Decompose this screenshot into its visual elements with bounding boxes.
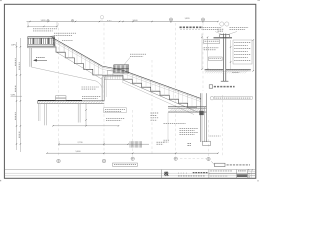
left dim numbers: [15, 58, 19, 138]
stamp box left: [113, 163, 138, 166]
railing posts: [33, 38, 35, 44]
annotation bar right: [210, 96, 214, 100]
soffit curve: [31, 67, 102, 93]
title block right cells: [248, 170, 256, 172]
svg-text:株: 株: [164, 171, 169, 178]
dim line mid: [53, 125, 119, 127]
mid landing vert left: [105, 77, 107, 97]
slab A hatch: [39, 101, 42, 104]
svg-text:3: 3: [252, 169, 253, 171]
top dim tick 10: [202, 21, 203, 22]
detail floor hatch: [205, 70, 209, 74]
detail note top right: [230, 27, 249, 29]
title block divider 1: [161, 170, 163, 179]
detail grid bubbles: [220, 22, 224, 26]
title block dark cell: [237, 174, 247, 177]
upper landing floor: [28, 45, 56, 47]
grid bubble 2 (circle): [100, 16, 103, 19]
top dim tick 1: [29, 21, 30, 22]
sheet label box: [215, 163, 226, 166]
svg-text:31: 31: [248, 174, 250, 176]
grid line x=175.7: [175, 23, 177, 156]
mid landing soffit: [104, 79, 123, 81]
title block divider 3: [236, 170, 238, 179]
grid marker X5: [169, 18, 172, 21]
mid landing floor: [102, 74, 123, 76]
left dim tick 46.8: [16, 46, 17, 47]
mid landing vert right: [122, 77, 124, 83]
handrail line 1: [52, 37, 201, 98]
grid marker X6: [201, 18, 204, 21]
down arrow: [34, 59, 48, 61]
grid line x=132.7: [132, 110, 134, 156]
top dim tick 7: [132, 21, 133, 22]
svg-text:05: 05: [248, 176, 250, 178]
bottom seg text: [157, 141, 165, 143]
railing end post: [53, 37, 55, 47]
svg-text:3,640: 3,640: [132, 20, 138, 22]
detail text rows: [204, 47, 219, 49]
top dim second tier: [28, 25, 57, 27]
top dim tick 5: [119, 21, 120, 22]
title band top rule: [5, 169, 255, 171]
left dim line B: [19, 38, 21, 152]
wall below slab A edge: [37, 104, 39, 121]
detail post: [222, 34, 224, 82]
border frame: [4, 4, 255, 178]
rail label text: [62, 39, 73, 41]
title block cell text 2: [210, 175, 228, 177]
detail box label 1: [204, 40, 220, 44]
detail floor left: [205, 68, 224, 70]
bottom hatch cluster: [129, 141, 131, 147]
grid bubble bottom 3: [131, 157, 134, 160]
detail dim mid: [230, 40, 232, 69]
wall at stair foot: [199, 93, 201, 142]
mid landing joists: [105, 75, 107, 79]
section title small: [218, 28, 225, 30]
corner speck bottom-left: [0, 180, 1, 181]
note near wall bottom: [210, 135, 221, 137]
mid rail: [52, 41, 201, 102]
title block divider 4: [247, 170, 249, 179]
top dim tick 11: [217, 21, 218, 22]
detail note top left: [203, 27, 222, 29]
down arrow text: [36, 57, 45, 59]
top dim tick 9: [170, 21, 171, 22]
slab A bottom: [38, 103, 104, 105]
bottom dim r text: [188, 143, 192, 145]
wall below slab A left: [44, 104, 46, 126]
grid bubble 1 (plus): [71, 19, 74, 22]
left dim tick 144: [16, 143, 17, 144]
dim vert floor B: [167, 113, 169, 141]
annotation handrail note: [54, 32, 76, 34]
top dim tick 2: [47, 21, 48, 22]
note mid 2: [82, 96, 101, 98]
railing top rail: [28, 36, 55, 38]
note mid 1: [82, 86, 100, 88]
grid line x=58.5: [58, 23, 60, 157]
handrail callout hatch block: [114, 65, 129, 73]
grid bubble bottom 1: [57, 159, 61, 163]
dim vert mid: [85, 104, 87, 126]
corner speck top-right: [257, 0, 260, 1]
svg-text:5,460: 5,460: [75, 151, 81, 153]
note grid label: [151, 112, 159, 114]
detail notes box right: [233, 40, 252, 64]
bottom dim line 1: [59, 143, 149, 145]
title block company row2: [178, 175, 205, 177]
top dim tick 6: [122, 21, 123, 22]
railing balusters: [27, 38, 29, 44]
note box mid-right: [104, 108, 127, 113]
upper landing wall below: [29, 48, 31, 67]
grid marker X4: [47, 20, 49, 22]
slab A top: [38, 100, 82, 102]
left dim tick 126: [16, 125, 17, 126]
corner speck top-left: [0, 0, 2, 1]
sheet label leader: [211, 161, 214, 165]
note rows mid-right2: [106, 118, 125, 120]
detail box label 2: [209, 57, 223, 61]
svg-text:● ● ● ●: ● ● ● ●: [178, 172, 187, 174]
leader to railing: [48, 36, 54, 38]
top dim tick 3: [75, 21, 76, 22]
title band rule 3: [5, 175, 255, 177]
railing bottom rail: [28, 43, 55, 45]
title block cell small 1: [238, 170, 247, 172]
section title text: [180, 26, 204, 28]
grid bubble bottom 4: [174, 157, 177, 160]
dashed tail line: [180, 157, 207, 159]
detail cap plate: [220, 35, 230, 38]
grid line x=203: [202, 23, 204, 91]
bottom dim line 2: [47, 152, 218, 154]
sheet background: [0, 0, 260, 183]
slab A left edge: [37, 101, 39, 104]
left dim tick 75: [16, 74, 17, 75]
title block divider 2: [208, 170, 210, 179]
title band rule 2: [5, 172, 255, 174]
callout text: [130, 53, 146, 55]
detail top plate: [214, 36, 233, 38]
grid bubble bottom 2: [102, 159, 106, 163]
detail post base: [221, 80, 229, 82]
callout leader: [124, 58, 130, 65]
title block company name: [193, 172, 208, 174]
top dimension line: [27, 21, 219, 23]
note bottom 1: [164, 123, 186, 125]
small mark bottom: [164, 139, 170, 141]
floor B line2: [168, 107, 207, 109]
flight 2 balusters: [122, 70, 124, 79]
railing left edge: [27, 37, 29, 48]
svg-text:1,820: 1,820: [40, 20, 46, 22]
svg-text:2,730: 2,730: [77, 142, 83, 144]
left dim tick 101: [16, 100, 17, 101]
annotation upper-left row1: [33, 28, 57, 30]
flight 2 stringer: [123, 80, 198, 112]
title block cell text 1: [210, 170, 232, 172]
grid line x=208.5: [208, 120, 210, 156]
detail dim left: [207, 37, 209, 69]
grid line x=222.7: [222, 95, 224, 157]
detail caption: [209, 85, 212, 88]
grid line x=152: [151, 60, 153, 156]
flight 2 steps: [123, 75, 197, 107]
detail floor right: [226, 68, 251, 70]
flight 2 soffit: [123, 83, 194, 115]
flight 1 balusters: [55, 39, 57, 46]
left dim line A: [16, 42, 18, 150]
floor B bottom: [168, 112, 207, 114]
detail floor text: [232, 72, 239, 74]
detail leaders top: [215, 32, 224, 36]
grid bubble bottom 5: [207, 157, 210, 160]
wall below slab A right: [77, 104, 79, 123]
bottom small box: [203, 141, 211, 145]
top dim tick 8: [151, 21, 152, 22]
grid line x=104: [103, 23, 105, 157]
flight 1 steps: [56, 47, 102, 76]
dim text small mid: [107, 20, 112, 22]
title block cell line: [209, 173, 255, 175]
corner speck bottom-right: [257, 180, 259, 181]
detail dim far left: [201, 34, 203, 70]
note boxes small: [56, 96, 67, 98]
handrail line 2: [52, 39, 201, 100]
flight 1 stringer: [56, 52, 103, 80]
mid landing support wall: [101, 77, 103, 101]
svg-text:1,820: 1,820: [184, 18, 190, 20]
note bottom block: [180, 128, 199, 130]
floor B hatch: [169, 109, 173, 113]
detail dim right: [252, 40, 254, 71]
top dim tick 4: [99, 21, 100, 22]
floor B top: [168, 106, 207, 108]
floor B soffit: [168, 110, 207, 112]
newel post base: [108, 70, 114, 75]
beam at wall base: [199, 111, 203, 115]
